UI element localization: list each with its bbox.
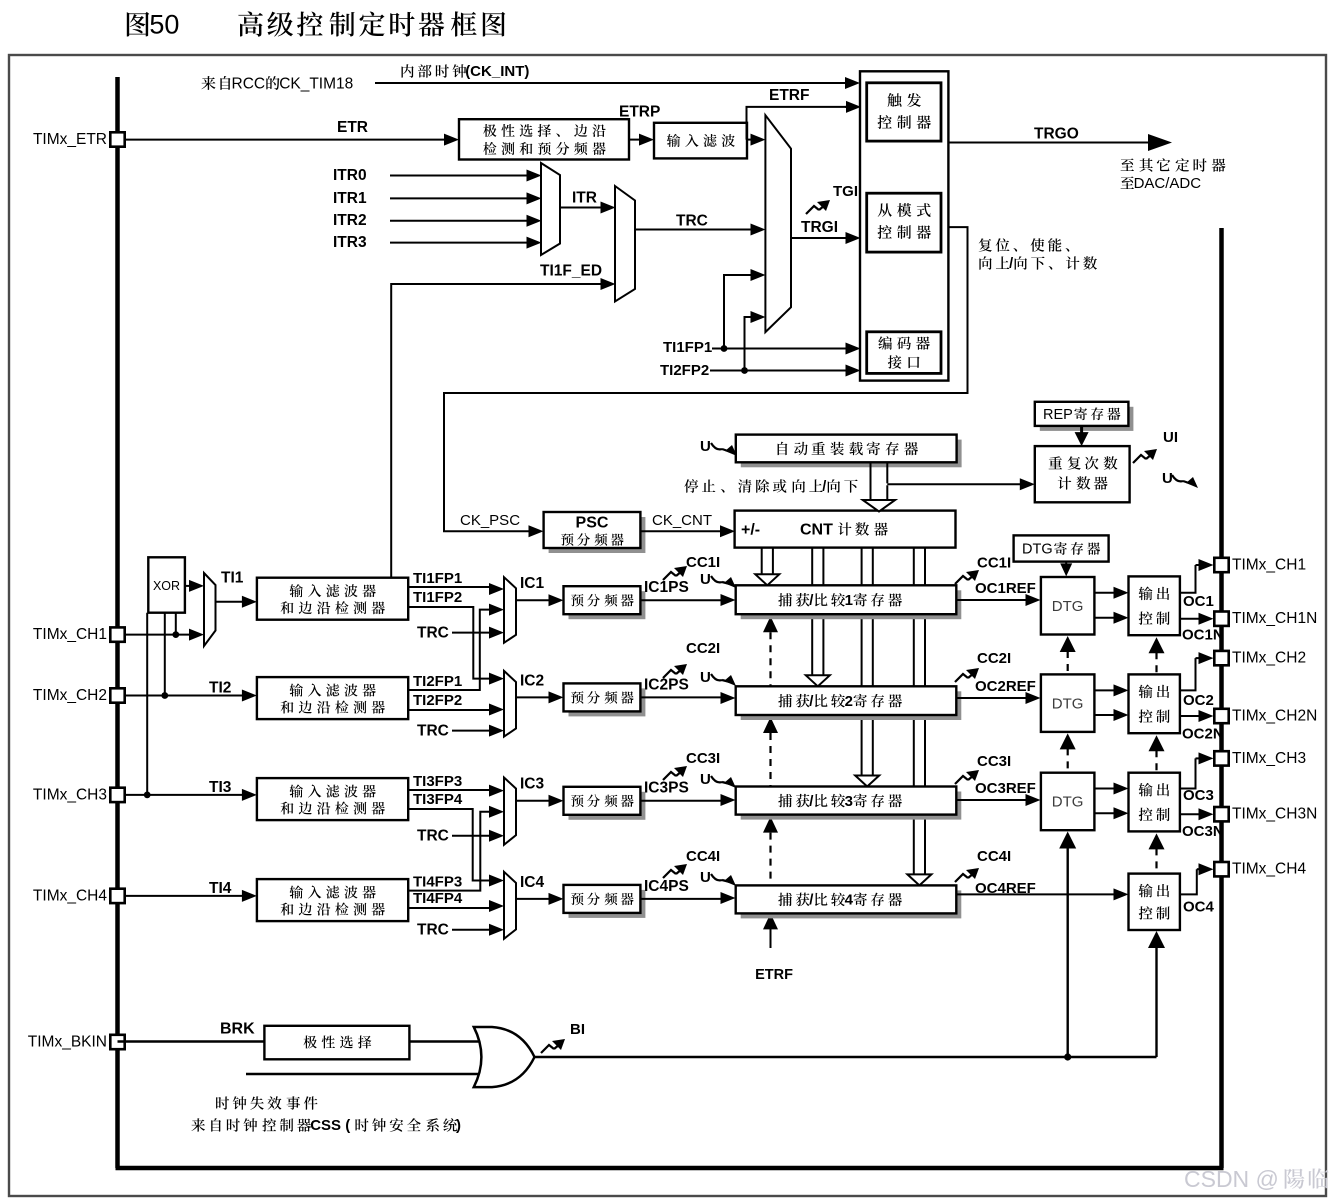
wire DTG 2 to output control lower [1094,714,1115,716]
svg-text:TI1FP2: TI1FP2 [413,589,462,606]
wire update to repetition counter [887,483,1021,485]
svg-text:U: U [700,571,711,588]
svg-text:CC4I: CC4I [977,848,1011,865]
block input filter and edge detector 2 输入滤波器和边沿检测器 [257,677,408,719]
svg-text:OC1: OC1 [1183,593,1214,610]
label 至 DAC/ADC [1121,175,1202,192]
svg-text:ETRP: ETRP [619,103,660,120]
svg-text:ETRF: ETRF [769,87,809,104]
svg-text:TIMx_ETR: TIMx_ETR [33,131,107,148]
svg-text:TIMx_CH2: TIMx_CH2 [1232,650,1306,667]
pin TIMx_CH4 [110,889,124,903]
svg-text:TRGO: TRGO [1034,125,1079,142]
wire TIMx_CH1 to TI1 mux [118,634,192,636]
wire TI3FP3 to IC3 mux [408,789,490,791]
wire OC1N to TIMx_CH1N pin [1180,618,1201,620]
block auto-reload register 自动重装载寄存器 [741,440,962,468]
svg-text:CC1I: CC1I [686,554,720,571]
pin TIMx_CH1N [1214,612,1228,626]
wire TI1FP1 to encoder interface [712,348,848,350]
dashed wire into DTG 1 bottom [1060,636,1076,652]
wire OC3REF to DTG [956,799,1027,801]
mux TRC selector [615,186,635,302]
wire ITR2 [390,220,529,222]
svg-text:TIMx_CH3: TIMx_CH3 [1232,750,1306,767]
svg-text:BI: BI [570,1021,585,1038]
bottom bus line [116,1166,1224,1171]
block REP register REP寄存器 [1040,407,1134,431]
mux IC1 selector [504,577,516,643]
svg-text:OC1REF: OC1REF [975,580,1036,597]
svg-text:BRK: BRK [220,1021,255,1038]
svg-text:TIMx_CH3N: TIMx_CH3N [1232,806,1317,823]
wire slave mode controller to prescaler clock loop [444,227,968,531]
mux IC3 selector [504,778,516,845]
svg-text:TRC: TRC [417,723,449,740]
svg-text:CSS (: CSS ( [310,1117,350,1134]
block prescaler 4 预分频器 [569,890,646,918]
mux TRGI selector [765,115,791,332]
wire TI1 to input filter 1 [216,601,244,603]
block output control 2 输出控制 [1129,674,1180,733]
wire polarity selection to OR gate [409,1040,480,1042]
pin TIMx_CH3 [110,788,124,802]
svg-text:ITR1: ITR1 [333,190,367,207]
wire TI2FP2 to encoder interface [710,370,848,372]
label 至其它定时器 [1121,158,1226,171]
block output control 3 输出控制 [1129,773,1180,832]
block input filter and edge detector 1 输入滤波器和边沿检测器 [257,578,408,620]
pin TIMx_CH2 [110,688,124,702]
label 停止、清除或向上/向下 [684,479,857,495]
wire ETRP [629,139,641,141]
label 复位、使能、 [979,238,1070,252]
hollow bus CNT to capture/compare 4 register [913,548,915,875]
figure title [127,10,505,40]
event arrow CC2I left [663,670,676,678]
svg-text:TI4FP4: TI4FP4 [413,890,463,907]
wire TIMx_CH4 to input filter [118,895,244,897]
wire OC1 to TIMx_CH1 pin [1180,565,1196,593]
block CNT counter CNT计数器 [735,511,956,548]
svg-text:CC1I: CC1I [977,555,1011,572]
svg-text:TIMx_CH3: TIMx_CH3 [33,786,107,803]
svg-text:ETR: ETR [337,119,368,136]
svg-text:OC4: OC4 [1183,899,1215,916]
svg-text:TI1F_ED: TI1F_ED [540,262,602,279]
block capture/compare 4 register 捕获/比较4寄存器 [741,890,962,918]
wire OC4 to TIMx_CH4 pin [1180,869,1197,894]
svg-text:CC3I: CC3I [686,750,720,767]
block slave mode controller 从模式控制器 [867,193,941,252]
right bus line [1219,228,1224,1168]
block capture/compare 1 register 捕获/比较1寄存器 [741,590,962,619]
svg-text:ETRF: ETRF [755,967,793,983]
pin TIMx_ETR [110,132,124,146]
wire BI to output stages [535,1056,1157,1058]
svg-text:TI2FP1: TI2FP1 [413,673,462,690]
svg-text:TIMx_CH4: TIMx_CH4 [33,887,107,904]
wire IC2 to prescaler [516,696,551,698]
wire TIMx_CH3 to input filter [118,794,244,796]
block XOR [148,557,185,612]
svg-text:CK_PSC: CK_PSC [460,512,520,529]
svg-text:TRC: TRC [676,212,708,229]
svg-text:TRC: TRC [417,625,449,642]
svg-text:OC3REF: OC3REF [975,780,1036,797]
wire DTG 3 to output control upper [1094,788,1115,790]
svg-text:4: 4 [845,892,854,909]
svg-text:DAC/ADC: DAC/ADC [1134,175,1202,192]
svg-text:U: U [1162,470,1173,487]
svg-text:ITR3: ITR3 [333,234,367,251]
block output control 4 输出控制 [1129,874,1180,930]
wire filter output to TRGI mux [747,139,753,141]
block trigger-slave-encoder container [860,71,948,380]
svg-text:IC2PS: IC2PS [644,676,689,693]
wire DTG 1 to output control lower [1094,617,1115,619]
svg-text:U: U [700,669,711,686]
wire ITR0 [390,175,529,177]
dashed wire into output control 3 bottom [1149,833,1165,849]
block DTG 2 [1041,674,1095,732]
wire DTG 2 to output control upper [1094,689,1115,691]
event arrow CC2I right [955,674,968,682]
svg-text:TI2: TI2 [209,679,231,696]
wire TI2FP2 to IC2 mux [408,709,490,711]
svg-text:OC1N: OC1N [1182,627,1224,644]
svg-text:1: 1 [845,592,853,609]
hollow bus CNT to capture/compare 2 register [811,548,813,676]
svg-text:50: 50 [149,10,179,40]
block capture/compare 2 register 捕获/比较2寄存器 [741,691,962,720]
event arrow CC1I left [663,572,676,580]
wire TI2FP2 to TRGI mux [745,317,753,371]
svg-text:(CK_INT): (CK_INT) [465,63,529,80]
svg-text:3: 3 [845,793,853,810]
label 时钟失效事件 [216,1096,317,1110]
block input filter and edge detector 3 输入滤波器和边沿检测器 [257,778,408,820]
OR gate [474,1027,535,1087]
svg-text:TI2FP2: TI2FP2 [413,692,462,709]
wire ITR1 [390,197,529,199]
wire ITR to TRC mux [560,207,603,209]
svg-text:OC2: OC2 [1183,692,1214,709]
svg-text:U: U [700,869,711,886]
block polarity selection 极性选择 [264,1026,409,1060]
wire TI3FP4 crossing down to IC4 mux [408,809,490,881]
svg-text:+/-: +/- [741,522,760,539]
svg-text:CSDN @: CSDN @ [1184,1166,1279,1192]
svg-text:TIMx_CH1: TIMx_CH1 [1232,556,1306,573]
event arrow CC4I right [955,874,968,882]
wire OC2N to TIMx_CH2N pin [1180,715,1201,717]
wire TI1FP1 to IC1 mux [408,586,490,588]
wire TI1FP2 crossing down to IC2 mux [408,607,490,679]
event arrow TGI [806,206,819,214]
dashed wire capture event into capture/compare 1 register [763,616,778,632]
svg-text:TI1: TI1 [221,569,244,586]
svg-text:PSC: PSC [576,515,609,532]
pin TIMx_CH1 [110,627,124,641]
svg-text:TIMx_CH1: TIMx_CH1 [33,626,107,643]
svg-text:DTG: DTG [1022,542,1053,558]
mux ITR selector [541,163,560,255]
block capture/compare 3 register 捕获/比较3寄存器 [741,792,962,820]
svg-text:TI3: TI3 [209,779,232,796]
wire XOR input from TIMx_CH2 [164,613,166,696]
hollow bus CNT to capture/compare 1 register [761,548,763,575]
svg-text:CNT: CNT [800,522,833,539]
event arrow UI [1133,455,1146,463]
wire XOR output to TI1 mux [185,585,191,587]
wire XOR input from TIMx_CH1 [175,613,177,635]
svg-text:IC4PS: IC4PS [644,878,689,895]
svg-text:TI2FP2: TI2FP2 [660,362,709,379]
wire TIMx_CH2 to input filter [118,695,244,697]
hollow arrow auto-reload to CNT [870,462,872,500]
arrow DTG register to DTG 1 [1065,562,1067,566]
event arrow CC4I left [663,870,676,878]
svg-text:): ) [456,1117,461,1134]
svg-text:RCC: RCC [232,75,266,92]
svg-text:ITR: ITR [572,189,597,206]
block DTG 3 [1041,773,1095,831]
wire OC3N to TIMx_CH3N pin [1180,813,1201,815]
block input filter and edge detector 4 输入滤波器和边沿检测器 [257,879,408,921]
mux IC2 selector [504,671,516,737]
wire CK_INT to trigger controller [375,82,847,84]
wire BI up to output control 4 [1155,944,1157,1057]
svg-text:/: / [1009,256,1013,272]
wire OC1REF to DTG [956,599,1027,601]
svg-text:TRC: TRC [417,922,449,939]
svg-text:TGI: TGI [833,183,858,200]
svg-text:IC2: IC2 [520,672,544,689]
wire IC3PS to capture/compare register [640,800,722,802]
pin TIMx_CH2N [1214,709,1228,723]
wire IC4 to prescaler [516,898,551,900]
svg-text:TI4: TI4 [209,880,232,897]
svg-text:IC1: IC1 [520,575,545,592]
wire ETRF stub to capture/compare 4 register [770,915,772,948]
block DTG register DTG寄存器 [1014,535,1109,561]
pin TIMx_CH3 [1214,751,1228,765]
wire ETRF branch [747,107,849,140]
svg-text:TI4FP3: TI4FP3 [413,873,462,890]
svg-text:TI3FP3: TI3FP3 [413,773,462,790]
block prescaler 1 预分频器 [569,591,646,619]
dashed wire into DTG 2 bottom [1060,733,1076,749]
svg-text:IC3PS: IC3PS [644,780,689,797]
wire ITR3 [390,242,529,244]
svg-text:CK_TIM18: CK_TIM18 [279,75,353,92]
block prescaler 3 预分频器 [569,792,646,820]
label 向上/向下、计数 [979,256,1097,272]
label 来自RCC的CK_TIM18 [201,75,353,92]
block trigger controller 触发控制器 [867,83,941,141]
wire DTG 1 to output control upper [1094,592,1115,594]
wire ETR from TIMx_ETR pin [118,139,447,141]
block polarity selection edge detector prescaler 极性选择、边沿检测和预分频器 [459,119,629,159]
block DTG 1 [1041,577,1095,635]
wire TRC to IC4 mux [452,929,490,931]
wire OC3 to TIMx_CH3 pin [1180,758,1196,788]
label 内部时钟 (CK_INT) [402,63,530,80]
wire OC4REF to output control 4 [956,893,1115,895]
svg-text:CC3I: CC3I [977,753,1011,770]
event arrow CC3I left [663,772,676,780]
wire OC2REF to DTG [956,697,1027,699]
svg-text:TRGI: TRGI [801,219,838,236]
svg-text:ITR0: ITR0 [333,167,367,184]
svg-text:TI1FP1: TI1FP1 [413,570,462,587]
dashed wire into output control 1 bottom [1149,637,1165,653]
svg-text:TI3FP4: TI3FP4 [413,791,463,808]
svg-text:REP: REP [1043,407,1073,423]
dashed wire capture event into capture/compare 3 register [763,817,778,833]
svg-text:U: U [700,771,711,788]
svg-text:ITR2: ITR2 [333,212,367,229]
wire IC4PS to capture/compare register [640,898,722,900]
mux TI1 selector [204,573,216,646]
wire TRC from mux [635,229,753,231]
wire OC2 to TIMx_CH2 pin [1180,658,1196,690]
svg-text:TI1FP1: TI1FP1 [663,339,712,356]
svg-text:IC3: IC3 [520,776,545,793]
wire clock failure event to OR gate [246,1073,486,1075]
wire IC3 to prescaler [516,800,551,802]
event arrow CC3I right [955,776,968,784]
svg-text:IC4: IC4 [520,874,545,891]
svg-text:TIMx_CH4: TIMx_CH4 [1232,861,1306,878]
svg-text:XOR: XOR [153,579,180,593]
svg-text:OC3: OC3 [1183,787,1214,804]
dashed wire capture event into capture/compare 2 register [763,717,778,733]
wire DTG 3 to output control lower [1094,812,1115,814]
wire TIMx_BKIN to polarity selection [118,1040,266,1043]
svg-text:TIMx_BKIN: TIMx_BKIN [28,1033,107,1050]
wire TI4FP4 to IC4 mux [408,907,490,909]
pin TIMx_CH3N [1214,807,1228,821]
wire CK_CNT [640,530,722,532]
wire TI2FP1 crossing up to IC1 mux [408,610,490,690]
wire TI4FP3 crossing up to IC3 mux [408,812,490,891]
svg-text:CC2I: CC2I [686,640,720,657]
wire IC1 to prescaler [516,599,551,601]
block output control 1 输出控制 [1129,576,1180,635]
pin TIMx_CH2 [1214,651,1228,665]
mux IC4 selector [504,872,516,939]
svg-text:2: 2 [845,693,853,710]
wire TRC to IC3 mux [452,835,490,837]
block prescaler 2 预分频器 [569,688,646,716]
event arrow BI [541,1045,554,1053]
svg-text:/: / [822,479,826,495]
wire TRC to IC2 mux [452,730,490,732]
svg-text:OC3N: OC3N [1182,823,1224,840]
svg-text:CC4I: CC4I [686,848,720,865]
svg-text:DTG: DTG [1052,794,1084,811]
label 来自时钟控制器CSS(时钟安全系统) [191,1117,461,1134]
svg-text:TIMx_CH2N: TIMx_CH2N [1232,707,1317,724]
wire XOR input from TIMx_CH3 [146,613,148,795]
wire TI1FP1 to TRGI mux [724,275,752,349]
svg-text:UI: UI [1163,429,1178,446]
pin TIMx_CH1 [1214,558,1228,572]
svg-text:OC4REF: OC4REF [975,880,1036,897]
svg-text:TIMx_CH1N: TIMx_CH1N [1232,610,1317,627]
svg-text:DTG: DTG [1052,598,1084,615]
dashed wire into output control 2 bottom [1149,735,1165,751]
wire BI up to DTG 3 [1066,845,1068,1057]
event arrow CC1I right [955,576,968,584]
wire TRGO [948,142,1148,144]
wire TI1F_ED from input filter 1 [391,284,600,578]
svg-text:OC2REF: OC2REF [975,678,1036,695]
svg-text:DTG: DTG [1052,695,1084,712]
block input filter 输入滤波 [654,123,747,159]
svg-text:IC1PS: IC1PS [644,579,689,596]
svg-text:OC2N: OC2N [1182,726,1224,743]
hollow bus CNT to capture/compare 3 register [861,548,863,776]
pin TIMx_BKIN [110,1035,124,1049]
svg-text:CC2I: CC2I [977,650,1011,667]
wire TRC to IC1 mux [452,632,490,634]
block PSC prescaler PSC预分频器 [549,517,646,553]
svg-text:TIMx_CH2: TIMx_CH2 [33,687,107,704]
arrow REP register to repetition counter [1080,426,1083,434]
block repetition counter 重复次数计数器 [1035,446,1130,502]
wire IC2PS to capture/compare register [640,696,722,698]
svg-text:TRC: TRC [417,828,449,845]
svg-text:U: U [700,438,711,455]
left bus line [115,77,120,1168]
svg-text:CK_CNT: CK_CNT [652,512,712,529]
wire IC1PS to capture/compare register [640,599,722,601]
block encoder interface 编码器接口 [867,332,941,374]
pin TIMx_CH4 [1214,862,1228,876]
wire TRGI to slave mode controller [791,237,848,239]
